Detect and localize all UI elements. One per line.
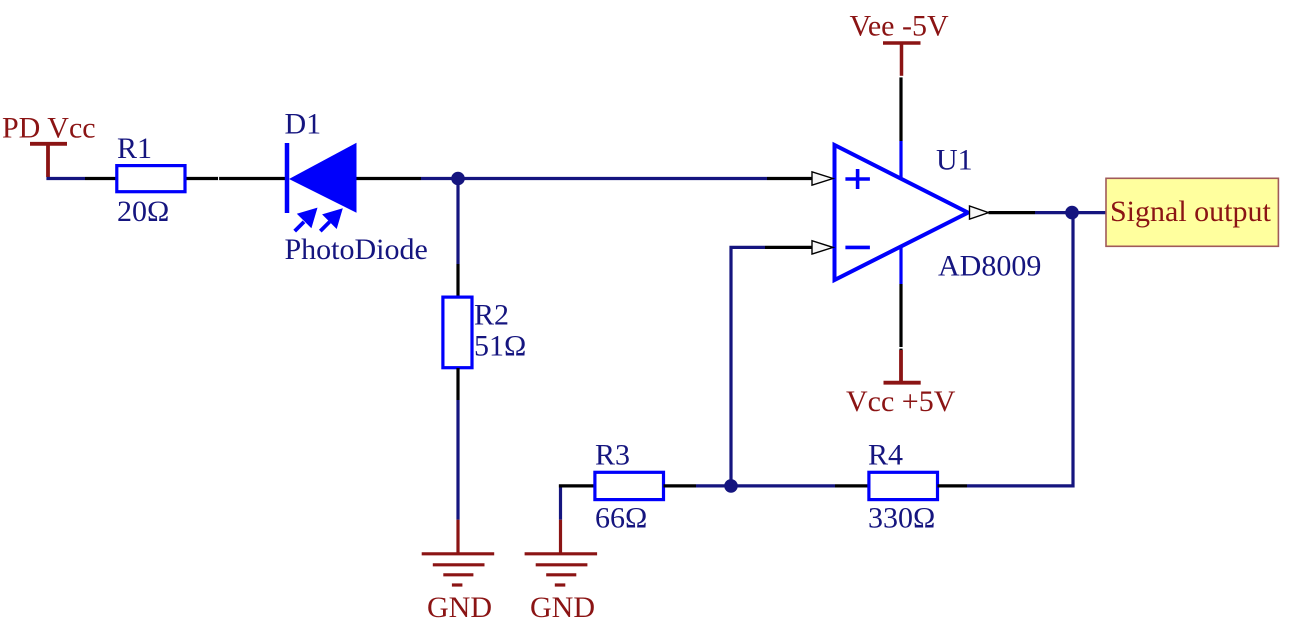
port Signal output box: [1106, 178, 1278, 246]
wire GND2 to R3 (black): [559, 484, 594, 487]
pin arrow output: [970, 206, 989, 219]
junction output node: [1065, 206, 1079, 220]
wire R4 to right corner (black then navy): [938, 484, 968, 487]
ground GND1: [422, 554, 495, 585]
svg-text:R1: R1: [117, 132, 152, 165]
op-amp - input marking: [845, 246, 870, 250]
resistor R1: [117, 166, 185, 192]
junction node B: [724, 479, 738, 493]
wire feedback node B up to - input (navy): [731, 247, 765, 486]
wire into + input (black): [767, 177, 814, 180]
ground GND2: [525, 554, 598, 585]
wire D1 to node A (black): [357, 177, 422, 180]
wire into - input (black): [765, 246, 814, 249]
wire node A run to op-amp (navy): [421, 177, 767, 180]
svg-text:20Ω: 20Ω: [117, 195, 169, 228]
wire R3 to node B (black then navy): [664, 484, 697, 487]
op-amp U1: [835, 145, 969, 280]
photodiode arrow 2: [320, 208, 343, 231]
wire node A down to R2 (navy then black): [456, 182, 459, 264]
power pin bottom (blue then black): [899, 246, 902, 284]
svg-text:U1: U1: [936, 144, 973, 177]
op-amp + input marking: [845, 169, 870, 189]
wire R1 to D1 (black): [187, 177, 286, 180]
pin arrow + input: [812, 172, 833, 185]
svg-text:R4: R4: [868, 438, 903, 471]
wire into R4 (black): [835, 484, 868, 487]
photodiode arrow 1: [295, 208, 318, 232]
power Vcc symbol: [884, 350, 921, 383]
svg-text:R3: R3: [595, 438, 630, 471]
junction node A: [451, 172, 465, 186]
wire GND2 stem (navy then dark red): [559, 485, 562, 520]
svg-text:R2: R2: [474, 299, 509, 332]
svg-text:PhotoDiode: PhotoDiode: [285, 233, 428, 266]
power PD_Vcc symbol: [30, 144, 67, 177]
svg-text:Vee -5V: Vee -5V: [850, 10, 949, 43]
svg-text:51Ω: 51Ω: [474, 330, 526, 363]
svg-text:330Ω: 330Ω: [868, 501, 935, 534]
svg-text:Signal output: Signal output: [1110, 195, 1272, 228]
pin arrow - input: [812, 241, 833, 254]
power Vee symbol: [883, 43, 921, 76]
resistor R4: [869, 472, 938, 499]
wire to R1 (black): [85, 177, 116, 180]
svg-text:Vcc +5V: Vcc +5V: [846, 385, 956, 418]
wire R2 to GND1 (black, navy, dark red): [456, 368, 459, 400]
pin gap marks (white notches): [219, 77, 905, 348]
svg-text:GND: GND: [427, 591, 492, 624]
svg-text:D1: D1: [285, 108, 322, 141]
wire power to R1 (navy stub): [46, 177, 85, 180]
svg-text:66Ω: 66Ω: [595, 501, 647, 534]
wire output (black then navy): [989, 211, 1036, 214]
svg-text:GND: GND: [530, 591, 595, 624]
svg-text:PD Vcc: PD Vcc: [2, 112, 96, 145]
power pin top (black then blue): [899, 77, 902, 141]
resistor R3: [595, 472, 664, 499]
photodiode D1: [287, 143, 357, 231]
resistor R2: [443, 297, 472, 368]
svg-text:AD8009: AD8009: [938, 250, 1041, 283]
